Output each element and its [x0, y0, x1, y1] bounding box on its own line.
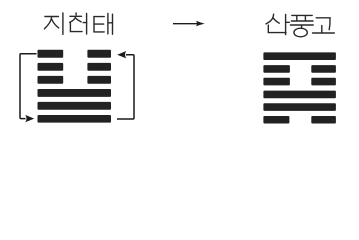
- char 풍: pieup left inner vertical: [296, 16, 298, 21]
- left hexagram 지천태 (Peace): lines numbered top(1) to bottom(6): [38, 50, 112, 123]
- title right: 산풍고 (hand-drawn Hangul strokes): [266, 14, 334, 37]
- char 고: giyeok downstroke: [328, 18, 331, 30]
- left hexagram line 3 (broken, right segment): [87, 76, 111, 84]
- right hexagram line 3 (broken, left segment): [263, 78, 290, 86]
- right hexagram line 4 (solid): [263, 91, 336, 99]
- char 지: jieut left leg: [44, 17, 51, 29]
- left hexagram line 2 (broken, left segment): [38, 63, 64, 71]
- char 고: o bar: [313, 32, 335, 34]
- right hexagram line 5 (solid): [263, 103, 336, 111]
- char 산: siot apex stem: [272, 14, 275, 18]
- right hexagram line 2 (broken, right segment): [311, 65, 336, 73]
- char 산: nieun: [268, 25, 286, 32]
- left swap bracket (top line to bottom, arrow pointing right): [20, 54, 37, 119]
- char 고: giyeok bar: [316, 17, 330, 19]
- char 태: tieut top bar: [94, 16, 104, 18]
- char 풍: ieung circle: [294, 28, 307, 37]
- char 지: jieut bar: [45, 16, 59, 18]
- char 천: nieun: [70, 23, 82, 32]
- left hexagram line 4 (solid): [38, 89, 112, 97]
- char 천: chieut right leg: [75, 18, 81, 22]
- char 태: tieut bottom bar: [94, 31, 104, 33]
- arrow between titles: [173, 21, 205, 27]
- char 천: eo vertical: [86, 13, 88, 34]
- char 태: tieut mid bar: [94, 23, 104, 25]
- left hexagram line 3 (broken, left segment): [38, 76, 64, 84]
- char 태: ae left vertical: [107, 14, 109, 34]
- char 지: jieut right leg: [51, 19, 58, 28]
- char 풍: u stem: [301, 25, 303, 28]
- left hexagram line 1 (broken, left segment): [38, 50, 64, 58]
- right hexagram line 6 (broken, right segment): [311, 116, 336, 124]
- left hexagram line 2 (broken, right segment): [87, 63, 111, 71]
- left hexagram line 1 (broken, right segment): [87, 50, 111, 58]
- left bracket arrowhead: [25, 115, 34, 122]
- char 산: siot left leg: [266, 18, 273, 24]
- char 산: a vertical: [285, 14, 287, 34]
- right hexagram line 1 (solid): [263, 52, 336, 60]
- char 풍: u bar: [290, 24, 313, 26]
- char 천: chieut bar: [70, 15, 82, 17]
- right hexagram line 2 (broken, left segment): [263, 65, 290, 73]
- char 태: ae right vertical: [112, 14, 114, 34]
- char 태: tieut left vertical: [93, 17, 95, 32]
- char 풍: pieup top bar: [292, 14, 312, 16]
- right hexagram line 6 (broken, left segment): [263, 116, 289, 124]
- right bracket arrowhead: [117, 51, 126, 58]
- char 천: eo tick: [83, 22, 86, 24]
- char 천: chieut tick: [75, 13, 77, 15]
- char 풍: pieup bottom bar: [291, 20, 313, 22]
- char 산: siot right leg: [273, 18, 279, 24]
- char 풍: pieup right inner vertical: [304, 16, 306, 21]
- left hexagram line 5 (solid): [38, 102, 112, 110]
- char 태: ae crossbar: [108, 22, 113, 24]
- char 산: a tick: [286, 21, 290, 23]
- right hexagram 산풍고 (Gu): lines numbered top(1) to bottom(6): [263, 52, 336, 123]
- char 고: o stem: [321, 26, 323, 33]
- left hexagram line 6 (solid): [38, 115, 112, 123]
- right swap bracket (bottom line to top, arrow pointing left): [117, 55, 134, 119]
- right hexagram line 3 (broken, right segment): [311, 78, 336, 86]
- char 지: i vertical: [62, 13, 64, 35]
- title left: 지천태 (hand-drawn Hangul strokes): [44, 13, 112, 35]
- char 천: chieut left leg: [70, 17, 76, 23]
